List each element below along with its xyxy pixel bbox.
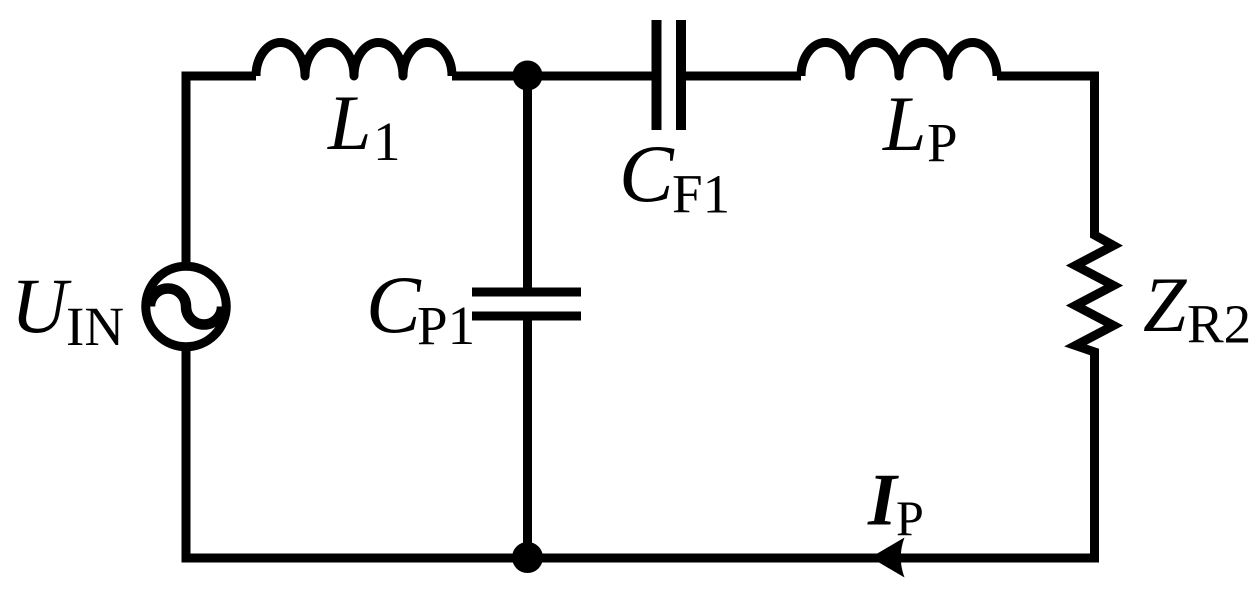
- svg-text:P: P: [896, 490, 924, 546]
- voltage source U_IN (circle with sine): [146, 266, 227, 347]
- wire: node A down to capacitor C_P1: [523, 76, 532, 288]
- label L1: [327, 79, 401, 172]
- label I_P: [867, 460, 924, 547]
- svg-text:P: P: [927, 112, 958, 173]
- label LP: [882, 80, 958, 173]
- svg-text:F1: F1: [672, 164, 730, 225]
- svg-text:I: I: [867, 460, 899, 542]
- resistor Z_R2 (zigzag): [1076, 228, 1114, 360]
- label U_IN: [11, 262, 124, 357]
- svg-text:IN: IN: [66, 296, 124, 357]
- capacitor C_P1 (plates): [472, 292, 581, 316]
- svg-text:Z: Z: [1143, 261, 1188, 348]
- wire: capacitor C_P1 down to node B: [523, 320, 532, 558]
- label Z_R2: [1143, 261, 1251, 355]
- svg-text:P1: P1: [417, 295, 475, 356]
- wire: resistor down, bottom run, left vertical up to source: [186, 351, 1095, 558]
- wire: C_F1 to L_P: [686, 72, 801, 81]
- svg-text:L: L: [882, 80, 926, 167]
- wire: L_P to top-right corner down to resistor: [997, 76, 1095, 235]
- svg-text:R2: R2: [1187, 294, 1251, 355]
- node A (top junction dot): [513, 61, 543, 91]
- inductor L1: [256, 43, 452, 77]
- svg-text:L: L: [327, 79, 371, 166]
- node B (bottom junction dot): [512, 542, 543, 573]
- svg-text:C: C: [366, 259, 422, 350]
- label C_F1: [619, 128, 730, 225]
- arrow I_P (current direction on bottom wire): [871, 538, 905, 578]
- inductor LP: [801, 43, 997, 77]
- svg-text:U: U: [11, 262, 72, 349]
- capacitor C_F1 (plates): [657, 20, 682, 130]
- wire: L1 to capacitor C_F1 (through node A): [452, 72, 652, 81]
- svg-text:1: 1: [373, 111, 401, 172]
- wire: left vertical + top-left run into L1: [186, 76, 256, 262]
- svg-text:C: C: [619, 128, 675, 219]
- label C_P1: [366, 259, 475, 356]
